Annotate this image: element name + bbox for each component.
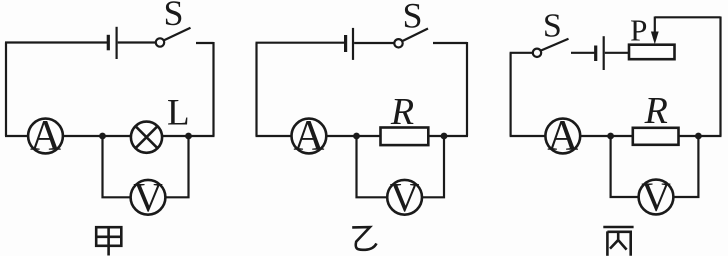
voltmeter V2 circle [387,180,422,215]
junction node (right of R, circuit 3) [695,133,702,140]
junction node (right of R, circuit 2) [441,133,448,140]
battery B3: short (negative) plate [594,46,597,62]
wire: top wire from left corner to battery [5,41,107,43]
junction node (right of lamp) [185,133,192,140]
wire: right vertical of circuit 1 [212,42,214,136]
svg-text:V: V [390,174,420,220]
wire: switch to battery [571,52,594,54]
wire: top wire from left corner to battery [256,42,345,44]
ammeter A3 circle [545,119,580,154]
wire: voltmeter branch of circuit 3 [611,136,699,197]
battery B1: short (negative) plate [107,35,110,51]
resistor R rectangle (circuit 3) [633,128,679,145]
wire: battery to switch S [118,41,156,43]
junction node (left of R, circuit 3) [607,133,614,140]
switch S lever (circuit 3) [541,39,569,51]
lamp L circle [131,122,162,153]
wire: switch to top-right corner [196,42,214,44]
label 丙 (caption, drawn strokes) [603,227,633,256]
svg-text:P: P [630,13,647,48]
voltmeter V1 circle [131,180,166,215]
label 乙 (caption, drawn strokes) [352,227,376,250]
switch S lever (circuit 2) [403,29,429,42]
svg-text:V: V [641,174,671,220]
battery B1: long (positive) plate [115,27,117,59]
switch S lever (open) [164,28,191,40]
svg-text:R: R [644,90,668,132]
wire: bottom main wire of circuit 1 [5,135,215,137]
wire: left vertical of circuit 3 [510,53,512,136]
svg-text:A: A [547,112,578,159]
svg-text:R: R [390,91,414,133]
resistor R rectangle (circuit 2) [381,128,429,146]
svg-text:A: A [30,113,61,160]
ammeter A1 circle [28,119,63,154]
wire: voltmeter branch of circuit 2 [357,136,445,197]
wire: left corner to switch [510,52,533,54]
wire: wiper to top-right corner [655,16,721,18]
wire: battery to switch [354,42,394,44]
voltmeter V3 circle [639,180,674,215]
rheostat P body rectangle [629,45,675,60]
rheostat P wiper stem [654,17,656,36]
wire: battery to rheostat P [605,52,630,54]
switch S pivot circle [156,38,164,46]
battery B2: long (positive) plate [352,28,354,60]
svg-text:V: V [133,174,163,220]
junction node (left of R, circuit 2) [353,133,360,140]
wire: voltmeter branch (left down, bottom, right up) [103,136,189,197]
svg-text:L: L [167,93,190,134]
lamp L cross stroke 1 [136,126,158,148]
svg-text:A: A [293,113,324,160]
wire: bottom main wire of circuit 3 [510,135,722,137]
wire: right vertical of circuit 2 [466,42,468,136]
switch S pivot circle (circuit 3) [533,49,541,57]
wire: right vertical of circuit 3 [719,17,721,137]
wire: left vertical of circuit 1 [5,43,7,137]
label 甲 (caption, drawn strokes) [96,227,121,255]
lamp L cross stroke 2 [136,126,158,148]
wire: bottom main wire of circuit 2 [256,135,469,137]
wire: left vertical of circuit 2 [255,43,257,136]
svg-text:S: S [543,7,562,44]
wire: switch to top-right corner [433,42,467,44]
svg-text:S: S [402,0,422,35]
svg-text:S: S [163,0,183,33]
junction node (left of lamp) [99,133,106,140]
switch S pivot circle (circuit 2) [394,39,402,47]
ammeter A2 circle [292,119,327,154]
rheostat P wiper arrowhead [651,32,659,45]
battery B2: short (negative) plate [344,35,347,52]
battery B3: long (positive) plate [603,36,605,70]
